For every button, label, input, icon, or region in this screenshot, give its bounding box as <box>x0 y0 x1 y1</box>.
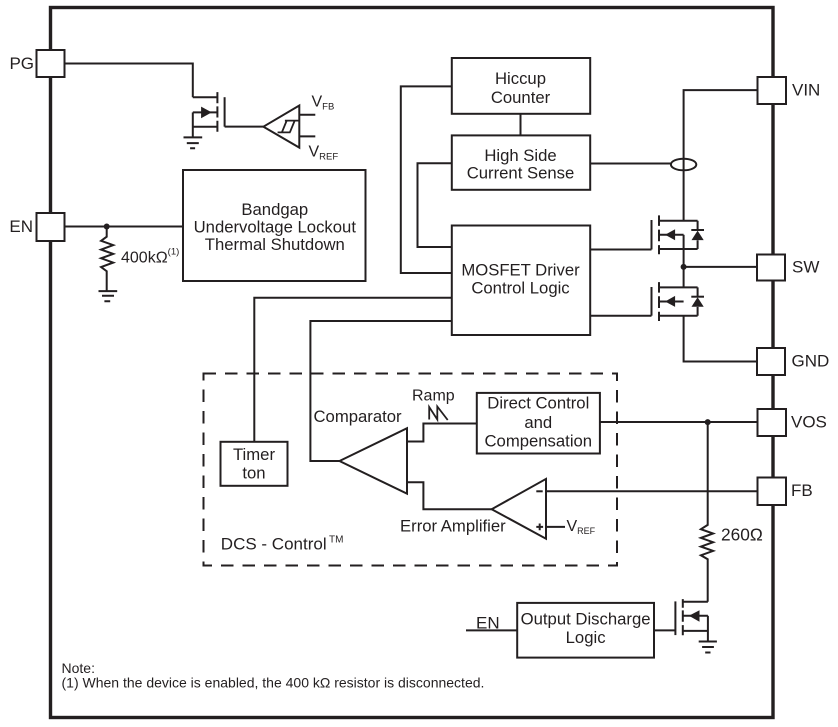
svg-text:Compensation: Compensation <box>484 432 592 451</box>
wire SW node to SW pin <box>684 266 757 268</box>
wire driver logic to Q3 gate <box>590 315 652 317</box>
svg-text:Output Discharge: Output Discharge <box>521 610 651 629</box>
svg-text:PG: PG <box>9 54 34 73</box>
svg-text:EN: EN <box>9 217 33 236</box>
svg-text:VIN: VIN <box>792 81 820 100</box>
svg-text:Control Logic: Control Logic <box>471 279 569 298</box>
block bandgap / UVLO / thermal shutdown <box>183 170 366 281</box>
resistor R1 400k <box>101 227 113 291</box>
wire current sense to driver logic <box>418 163 452 247</box>
svg-text:GND: GND <box>792 352 830 371</box>
svg-text:Error Amplifier: Error Amplifier <box>400 517 506 536</box>
svg-text:ton: ton <box>242 464 265 483</box>
svg-text:(1) When the device is enabled: (1) When the device is enabled, the 400 … <box>62 675 485 691</box>
pin FB <box>758 478 813 506</box>
node SW junction <box>681 264 687 270</box>
svg-text:Current Sense: Current Sense <box>467 164 575 183</box>
pin GND <box>757 348 829 375</box>
op-amp U3 (error amplifier) <box>492 479 565 539</box>
op-amp U1 (PG hysteresis comparator) <box>263 106 315 148</box>
transistor Q1 (PG pull-down MOSFET) <box>193 92 225 137</box>
wire hiccup counter to current sense <box>520 114 522 136</box>
wire PG to Q1 drain <box>65 64 193 98</box>
ramp waveform glyph <box>429 407 448 421</box>
ground (Q4 source) <box>699 642 717 653</box>
svg-text:Hiccup: Hiccup <box>495 69 546 88</box>
svg-text:Thermal Shutdown: Thermal Shutdown <box>205 235 345 254</box>
svg-text:Counter: Counter <box>491 88 551 107</box>
svg-text:MOSFET Driver: MOSFET Driver <box>461 260 580 279</box>
svg-text:and: and <box>524 413 552 432</box>
wire hiccup counter to driver logic <box>401 86 452 273</box>
wire U2 upper output to ramp net <box>407 424 477 442</box>
transistor Q3 (low side MOSFET) <box>652 282 698 321</box>
wire U2 lower input from error amplifier <box>407 482 492 509</box>
wire driver logic to comparator output <box>310 321 451 461</box>
block output discharge logic <box>517 603 654 658</box>
wire output discharge logic to Q4 gate <box>654 629 675 631</box>
svg-text:Timer: Timer <box>233 445 275 464</box>
svg-text:FB: FB <box>791 481 813 500</box>
svg-text:VOS: VOS <box>791 413 827 432</box>
wire EN to output discharge logic <box>466 629 517 631</box>
wire Q3 source to GND pin <box>684 316 757 362</box>
wire VIN to Q2 drain <box>684 90 758 221</box>
svg-text:Direct Control: Direct Control <box>487 394 589 413</box>
pin SW <box>757 255 819 281</box>
diode D1 (Q2 body diode) <box>691 221 704 249</box>
diode D2 (Q3 body diode) <box>691 287 704 315</box>
block hiccup counter <box>452 58 590 114</box>
block MOSFET driver control logic <box>452 226 590 336</box>
svg-text:Bandgap: Bandgap <box>241 200 308 219</box>
wire driver logic to timer <box>254 298 451 442</box>
current sense probe ellipse <box>671 159 696 171</box>
op-amp U2 (comparator) <box>340 428 408 494</box>
node VOS junction <box>705 419 711 425</box>
svg-text:SW: SW <box>792 258 819 277</box>
node EN junction <box>104 224 110 230</box>
svg-text:Comparator: Comparator <box>314 407 403 426</box>
wire current sense to sense loop <box>590 163 671 165</box>
wire direct control to VOS <box>600 421 758 423</box>
pin PG <box>9 50 64 77</box>
svg-text:High Side: High Side <box>484 146 556 165</box>
pin VOS <box>758 409 827 436</box>
wire EN to bandgap block <box>65 226 184 228</box>
ground (R1 bottom) <box>99 291 118 301</box>
svg-text:TM: TM <box>329 535 343 546</box>
pin EN <box>9 213 64 241</box>
transistor Q2 (high side MOSFET) <box>652 215 698 254</box>
transistor Q4 (output discharge MOSFET) <box>675 599 708 641</box>
ground (Q1 source) <box>184 137 203 148</box>
wire Q1 gate to comparator U1 output <box>225 126 264 128</box>
wire driver logic to Q2 gate <box>590 249 652 251</box>
DCS-Control dashed boundary <box>204 374 618 566</box>
svg-text:Logic: Logic <box>566 628 606 647</box>
svg-text:Undervoltage Lockout: Undervoltage Lockout <box>194 218 357 237</box>
block direct control and compensation <box>477 393 600 454</box>
resistor R2 260 ohm with wire to Q4 drain <box>701 422 713 602</box>
wire Q2 source to Q3 drain (SW node) <box>683 235 685 288</box>
block high side current sense <box>452 135 590 189</box>
svg-text:260Ω: 260Ω <box>721 525 763 545</box>
pin VIN <box>758 77 821 104</box>
svg-text:Ramp: Ramp <box>412 388 455 405</box>
block timer ton <box>221 442 288 486</box>
wire FB to U3 inverting input <box>546 490 758 492</box>
svg-text:DCS - Control: DCS - Control <box>221 535 327 554</box>
